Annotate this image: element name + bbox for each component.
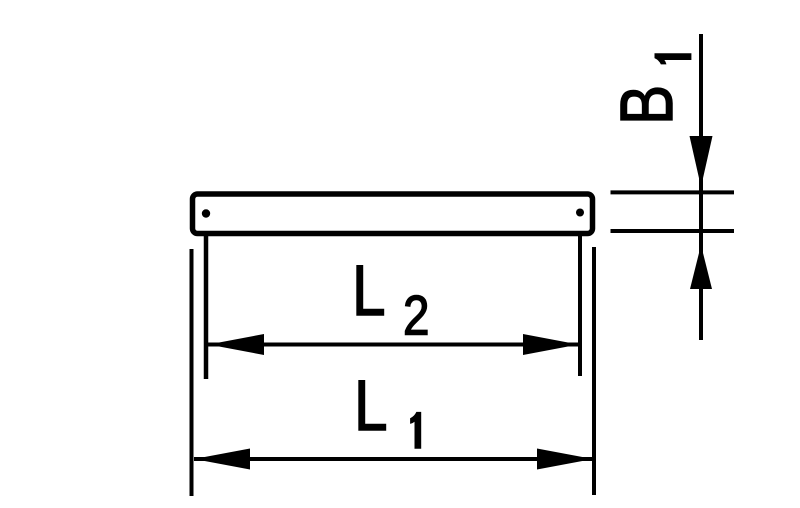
extension line B1 top [611, 190, 735, 194]
dimension line L2 [208, 343, 579, 347]
extension line L1 right [592, 247, 596, 495]
svg-text:2: 2 [403, 285, 429, 347]
label B1 (rotated) [606, 54, 691, 125]
extension line L2 left [204, 236, 209, 379]
extension line L2 right [578, 236, 582, 376]
arrow B1 up [690, 245, 712, 289]
label L2 [352, 250, 429, 347]
extension line B1 bottom [611, 229, 735, 233]
extension line L1 left [190, 249, 194, 496]
svg-text:L: L [354, 365, 388, 445]
svg-text:B: B [606, 85, 688, 125]
arrow L2 right [523, 334, 579, 355]
hole right [576, 209, 584, 217]
dimension line L1 [194, 457, 593, 461]
arrow L1 right [537, 449, 593, 470]
arrow L1 left [194, 449, 250, 470]
arrow L2 left [209, 334, 265, 355]
label L1 [354, 365, 421, 448]
dimension line B1 [699, 34, 703, 340]
bar body [193, 194, 593, 234]
svg-text:L: L [352, 250, 386, 330]
arrow B1 down [690, 136, 713, 187]
hole left [202, 209, 210, 217]
